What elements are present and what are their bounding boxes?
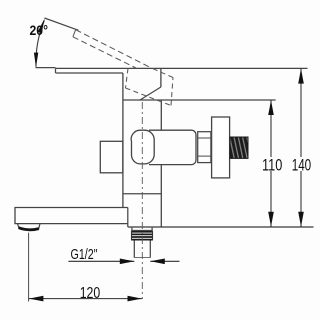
wall box on body left xyxy=(100,141,123,173)
dashed raised lever top edge xyxy=(76,30,151,68)
knob barrel cap xyxy=(131,130,154,164)
dim 140 line upper xyxy=(300,68,302,157)
angle reference horizontal line xyxy=(36,67,56,69)
dim G1/2 left arrow xyxy=(120,259,135,265)
dim 120 left arrow xyxy=(29,296,44,302)
outlet thread sides xyxy=(132,231,153,241)
dashed hub left edge xyxy=(126,68,129,88)
dashed hub top-right edge xyxy=(151,68,173,78)
dim 140 top arrow xyxy=(298,69,304,84)
neck inner line upper xyxy=(198,137,211,139)
dim 120 right arrow xyxy=(128,296,143,302)
dim 110 line upper xyxy=(270,100,272,157)
hub chamfer edge xyxy=(140,87,161,100)
body joint line xyxy=(123,193,161,195)
dim G1/2 right arrow xyxy=(150,259,165,265)
dim 140 line lower xyxy=(300,171,302,227)
neck rect xyxy=(198,132,211,163)
centerline of body xyxy=(141,102,143,299)
dashed raised lever end cap xyxy=(73,30,76,37)
dashed raised lever bottom edge xyxy=(73,37,136,68)
dim 110 line lower xyxy=(270,171,272,227)
svg-text:110: 110 xyxy=(262,156,282,174)
svg-text:140: 140 xyxy=(292,156,312,174)
dim 110 bottom arrow xyxy=(268,212,274,227)
svg-text:120: 120 xyxy=(80,285,101,302)
spout tip extension line xyxy=(28,233,30,302)
dashed hub right edge xyxy=(171,78,173,106)
spout mouth lip xyxy=(18,224,41,231)
angle arc arrow bottom xyxy=(34,53,38,68)
neck inner line lower xyxy=(198,155,211,157)
baseline (body bottom + dimension base) xyxy=(128,226,314,228)
outlet thread ridges xyxy=(132,232,153,240)
spout mouth dark band xyxy=(19,228,39,230)
body left edge xyxy=(122,73,124,208)
outlet tube bottom xyxy=(134,257,150,259)
lever plate bottom edge xyxy=(56,72,123,74)
shoulder line B (hub bottom + 110 extension line) xyxy=(123,99,276,101)
dim 140 bottom arrow xyxy=(298,212,304,227)
spout right end edge xyxy=(127,208,129,228)
lever plate left edge xyxy=(55,68,57,73)
svg-text:20°: 20° xyxy=(30,22,49,38)
dim G1/2 left line xyxy=(68,260,134,262)
outlet collar xyxy=(132,228,152,231)
dim 120 line xyxy=(29,298,143,300)
spout xyxy=(15,208,128,224)
hub right edge xyxy=(160,68,162,87)
dim G1/2 right line xyxy=(150,260,179,262)
outlet tube xyxy=(134,241,150,258)
top line A (faucet top + 140 extension line) xyxy=(56,67,308,69)
body right edge upper xyxy=(160,100,162,130)
wall flange xyxy=(212,117,230,178)
cartridge housing xyxy=(149,130,196,164)
angle slant ray xyxy=(45,18,79,30)
angle arc arrow top xyxy=(38,18,45,33)
svg-text:G1/2": G1/2" xyxy=(71,247,98,263)
angle arc 20 deg xyxy=(36,21,44,67)
dim 110 top arrow xyxy=(268,100,274,115)
threaded inlet stub xyxy=(230,137,248,158)
body right edge lower xyxy=(160,165,162,227)
dashed hub bottom edge xyxy=(126,88,172,106)
